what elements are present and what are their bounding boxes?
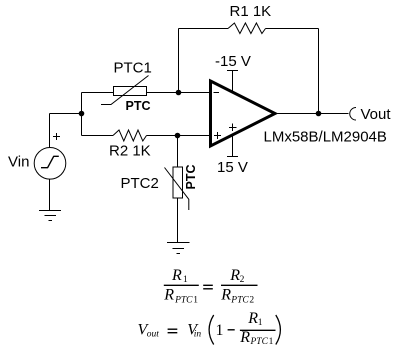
terminal Vout open circle	[350, 108, 356, 121]
eq2 right paren	[276, 315, 281, 345]
wire output	[275, 113, 349, 115]
wire Vin top vertical	[49, 114, 51, 148]
eq2 minus	[228, 329, 235, 331]
wire Vin bottom to ground	[49, 179, 51, 211]
svg-text:PTC: PTC	[126, 99, 151, 113]
eq1 fraction bar left	[164, 284, 199, 286]
wire feedback top right segment	[266, 28, 319, 30]
svg-text:2: 2	[249, 296, 254, 306]
svg-text:1: 1	[216, 322, 224, 339]
op-amp U1	[211, 81, 276, 146]
svg-text:R: R	[220, 287, 231, 304]
power pin 15V (bottom)	[227, 135, 238, 157]
wire R2 row right to op-amp noninverting input	[147, 135, 211, 137]
svg-text:R: R	[247, 310, 258, 327]
eq1 equals sign	[203, 285, 213, 289]
svg-text:1: 1	[269, 337, 274, 347]
wire feedback right vertical	[318, 29, 320, 114]
source Vin	[34, 148, 66, 180]
wire node A vertical branch	[81, 93, 83, 136]
wire PTC1 row right to op-amp inverting input	[147, 92, 211, 94]
wire Vin node horizontal	[50, 113, 82, 115]
wire feedback top left segment	[179, 28, 229, 30]
svg-text:R: R	[163, 287, 174, 304]
thermistor PTC1	[101, 76, 149, 105]
eq1 fraction bar right	[221, 284, 258, 286]
junction node noninverting input	[175, 133, 181, 139]
svg-text:PTC: PTC	[184, 165, 198, 190]
svg-text:Vin: Vin	[8, 154, 29, 171]
eq2 left paren	[209, 315, 214, 345]
svg-text:R1 1K: R1 1K	[230, 3, 272, 20]
thermistor PTC2	[165, 167, 189, 210]
svg-text:2: 2	[240, 275, 245, 285]
polarity plus at Vin	[53, 133, 60, 140]
wire feedback left vertical	[178, 29, 180, 93]
eq2 equals sign	[168, 329, 178, 333]
power pin -15V (top)	[227, 71, 238, 93]
svg-text:-15 V: -15 V	[215, 53, 251, 70]
wire PTC2 vertical	[177, 136, 179, 243]
resistor R2	[113, 130, 147, 141]
svg-text:R2 1K: R2 1K	[109, 143, 151, 160]
junction node Vin	[79, 111, 85, 117]
svg-text:PTC2: PTC2	[121, 175, 159, 192]
svg-text:R: R	[229, 267, 240, 284]
junction node output	[316, 111, 322, 117]
svg-text:Vout: Vout	[361, 106, 392, 123]
svg-text:PTC: PTC	[230, 296, 249, 306]
equation 2: Vout = Vin (1 - R1/RPTC1)	[138, 310, 281, 347]
ground (PTC2)	[167, 243, 190, 254]
svg-text:out: out	[147, 330, 160, 340]
svg-text:PTC1: PTC1	[114, 60, 152, 77]
op-amp noninverting input plus	[214, 132, 221, 139]
svg-text:in: in	[194, 330, 202, 340]
ground (Vin)	[39, 211, 61, 221]
svg-text:1: 1	[183, 275, 188, 285]
svg-text:1: 1	[193, 296, 198, 306]
resistor R1	[228, 23, 266, 34]
svg-text:PTC: PTC	[174, 296, 193, 306]
svg-text:PTC: PTC	[250, 337, 269, 347]
svg-text:1: 1	[258, 318, 263, 328]
op-amp inverting input minus	[214, 92, 220, 94]
svg-text:15 V: 15 V	[217, 159, 248, 176]
equation 1: R1/RPTC1 = R2/RPTC2	[163, 267, 257, 306]
svg-text:R: R	[171, 267, 182, 284]
svg-text:R: R	[239, 329, 250, 346]
svg-text:LMx58B/LM2904B: LMx58B/LM2904B	[264, 129, 387, 146]
op-amp positive supply plus	[229, 124, 237, 132]
junction node inverting input	[176, 90, 182, 96]
eq2 fraction bar	[240, 329, 276, 331]
wire R2 row left	[82, 135, 114, 137]
wire PTC1 row left	[82, 92, 114, 94]
